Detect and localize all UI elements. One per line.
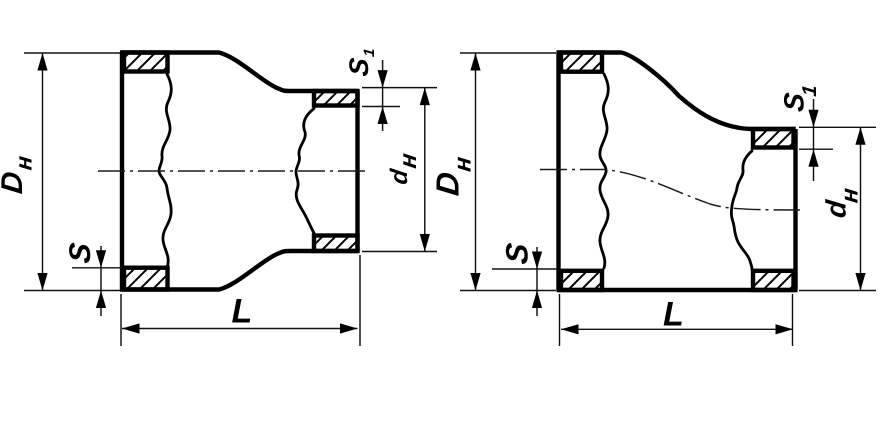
svg-text:S: S xyxy=(499,241,534,266)
svg-text:н: н xyxy=(11,155,37,172)
svg-text:1: 1 xyxy=(361,47,378,57)
svg-text:d: d xyxy=(386,166,413,186)
svg-text:L: L xyxy=(232,293,253,331)
svg-text:L: L xyxy=(663,296,684,334)
svg-text:н: н xyxy=(395,151,422,170)
svg-text:D: D xyxy=(0,170,29,195)
svg-text:S: S xyxy=(343,56,374,77)
svg-text:S: S xyxy=(64,241,97,264)
svg-text:н: н xyxy=(450,155,477,173)
svg-text:1: 1 xyxy=(799,84,821,97)
svg-text:н: н xyxy=(837,186,864,204)
svg-text:D: D xyxy=(430,170,466,197)
